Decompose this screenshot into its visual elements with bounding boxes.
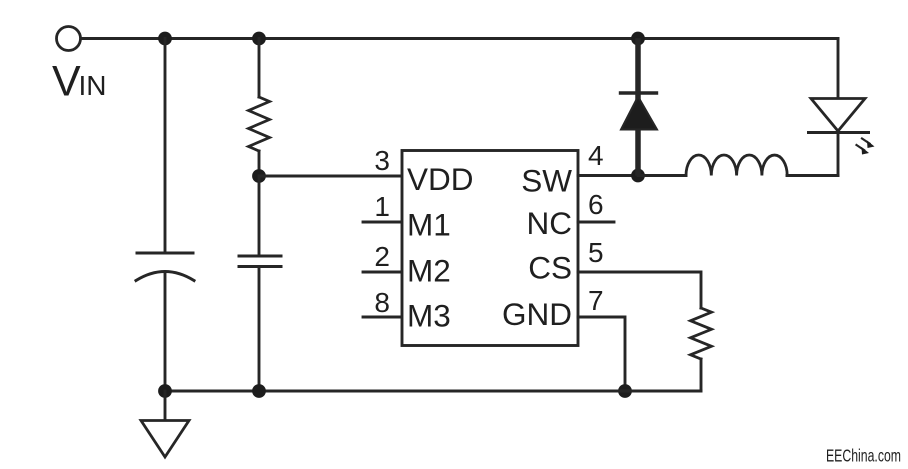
wire pin 1 stub (363, 221, 400, 224)
wire R1 bottom lead (258, 151, 261, 176)
wire bottom rail (165, 390, 701, 393)
node F (GND junction) (618, 384, 632, 398)
label EEChina.com (826, 446, 901, 466)
wire SW (pin 4 to node E) (578, 174, 638, 177)
wire C2 bottom lead (258, 267, 261, 392)
svg-text:2: 2 (374, 241, 390, 272)
pin label GND (502, 296, 572, 332)
pin label VDD (407, 161, 474, 197)
wire inductor to LED (787, 174, 838, 177)
wire LED cathode lead (837, 133, 840, 176)
pin label NC (527, 205, 573, 241)
pin number 3 (374, 145, 390, 176)
pin number 6 (588, 189, 604, 220)
svg-text:VDD: VDD (407, 161, 474, 197)
inductor L1 (686, 155, 787, 176)
svg-text:1: 1 (374, 191, 390, 222)
pin number 5 (588, 237, 604, 268)
wire C2 top lead (258, 176, 261, 256)
op-amp U1 (IC body) (402, 151, 578, 346)
wire top rail (81, 37, 838, 40)
svg-text:SW: SW (521, 163, 572, 199)
node B (R1 top junction) (252, 32, 266, 46)
node E (SW junction) (631, 169, 645, 183)
wire LED anode lead (837, 39, 840, 99)
svg-text:3: 3 (374, 145, 390, 176)
capacitor C2 (239, 256, 281, 267)
resistor R1 (249, 97, 270, 151)
wire C1 bottom lead (164, 272, 167, 391)
svg-text:4: 4 (588, 140, 604, 171)
diode D1 (621, 93, 658, 130)
pin number 7 (588, 285, 604, 316)
pin label M1 (407, 207, 451, 243)
node C (diode top junction) (631, 32, 645, 46)
wire CS (pin 5 to R2) (578, 272, 701, 308)
svg-text:M2: M2 (407, 253, 451, 289)
node A (VIN / C1 junction) (158, 32, 172, 46)
terminal VIN (57, 27, 81, 51)
svg-text:EEChina.com: EEChina.com (826, 446, 901, 466)
wire pin 8 stub (363, 316, 400, 319)
svg-text:IN: IN (79, 70, 107, 101)
svg-text:V: V (52, 58, 81, 106)
wire R1 top lead (258, 39, 261, 98)
pin number 1 (374, 191, 390, 222)
wire ground lead (164, 391, 167, 420)
svg-text:NC: NC (527, 205, 573, 241)
wire pin 2 stub (363, 271, 400, 274)
svg-text:CS: CS (528, 250, 572, 286)
svg-text:6: 6 (588, 189, 604, 220)
pin label CS (528, 250, 572, 286)
pin number 8 (374, 287, 390, 318)
LED D2 (809, 99, 875, 155)
diode D1 lead (thick) (635, 41, 641, 173)
svg-text:7: 7 (588, 285, 604, 316)
pin label SW (521, 163, 572, 199)
svg-text:GND: GND (502, 296, 572, 332)
pin label M2 (407, 253, 451, 289)
wire pin 6 stub (578, 221, 614, 224)
pin number 2 (374, 241, 390, 272)
wire SW to inductor (638, 174, 686, 177)
pin number 4 (588, 140, 604, 171)
svg-text:5: 5 (588, 237, 604, 268)
wire C1 top lead (164, 39, 167, 254)
capacitor C1 (polarized) (136, 253, 194, 281)
resistor R2 (691, 308, 712, 359)
wire R2 bottom lead (700, 359, 703, 391)
node G (C1 bottom junction) (158, 384, 172, 398)
ground (141, 421, 189, 458)
wire VDD (node D to pin 3) (259, 175, 400, 178)
svg-text:8: 8 (374, 287, 390, 318)
pin label M3 (407, 298, 451, 334)
label VIN (52, 58, 107, 106)
node D (VDD junction) (252, 169, 266, 183)
node H (C2 bottom junction) (252, 384, 266, 398)
svg-text:M1: M1 (407, 207, 451, 243)
wire GND (pin 7 to node F) (578, 317, 625, 391)
svg-text:M3: M3 (407, 298, 451, 334)
